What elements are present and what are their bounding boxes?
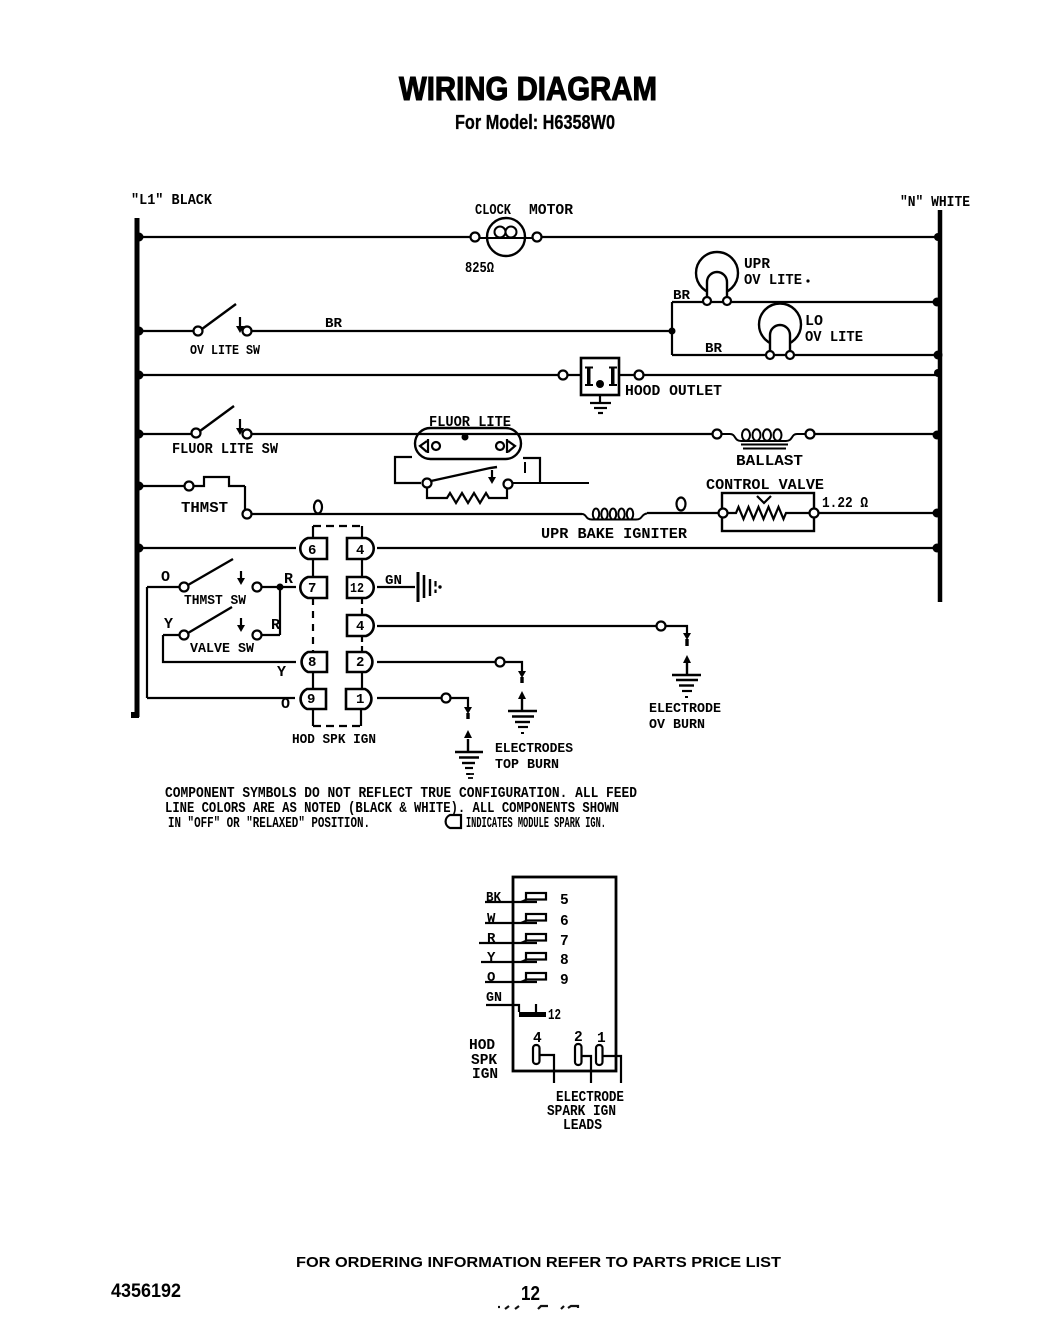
PIN12 GROUND: [377, 572, 442, 602]
HV pin 2: [574, 1030, 591, 1083]
svg-text:825Ω: 825Ω: [465, 260, 494, 277]
svg-text:4356192: 4356192: [111, 1281, 181, 1302]
svg-text:Y: Y: [164, 616, 173, 633]
wire Y feed: [163, 635, 296, 662]
pin 6 spade: [485, 911, 569, 930]
svg-text:2: 2: [356, 655, 364, 671]
ROW4: [139, 406, 938, 503]
lamp UPR OV LITE: [673, 252, 810, 305]
svg-text:BR: BR: [325, 316, 343, 332]
svg-text:"L1" BLACK: "L1" BLACK: [131, 192, 212, 209]
svg-text:LINE COLORS ARE AS NOTED (BLAC: LINE COLORS ARE AS NOTED (BLACK & WHITE)…: [165, 801, 619, 817]
svg-text:8: 8: [308, 655, 316, 671]
spark gap arrow top burn: [521, 699, 523, 710]
wire hood outlet row left: [139, 374, 558, 376]
svg-text:HOD: HOD: [469, 1038, 495, 1054]
node BR vertical: [671, 302, 673, 355]
svg-text:ELECTRODE: ELECTRODE: [649, 701, 721, 717]
wire ballast to N bus: [815, 433, 938, 435]
svg-text:CONTROL VALVE: CONTROL VALVE: [706, 477, 824, 494]
ground ELECTRODE OV BURN: [672, 675, 701, 697]
module pin symbol in note: [446, 815, 461, 828]
svg-text:IGN: IGN: [472, 1067, 498, 1083]
spark gap arrow pin1: [467, 739, 469, 751]
link pin6-pin7: [312, 559, 314, 577]
label module HOD SPK IGN: [469, 1038, 498, 1083]
wire VALVE SW to R node: [261, 634, 280, 636]
svg-text:OV BURN: OV BURN: [649, 717, 705, 733]
connector bead 2: [677, 498, 686, 511]
starter loop wires: [395, 457, 589, 483]
svg-text:THMST SW: THMST SW: [184, 593, 247, 609]
wire pin12 to ground: [377, 586, 415, 588]
svg-text:UPR BAKE IGNITER: UPR BAKE IGNITER: [541, 526, 687, 543]
wire row1 right: [542, 236, 938, 238]
svg-text:BR: BR: [705, 341, 723, 357]
pin 6: [300, 538, 327, 559]
wire tube to ballast: [521, 433, 713, 435]
switch THMST SW: [147, 559, 262, 609]
svg-text:R: R: [284, 571, 293, 588]
dashed module bridge above pins: [313, 526, 362, 538]
svg-text:LEADS: LEADS: [563, 1118, 602, 1134]
pin 4b: [347, 615, 374, 636]
inductor BALLAST: [713, 429, 815, 470]
ground ELECTRODES TOP BURN: [508, 711, 537, 733]
wire valve to N bus: [818, 512, 938, 514]
svg-text:1.22 Ω: 1.22 Ω: [822, 495, 868, 512]
pin 4 top: [347, 538, 374, 559]
MODULE DETAIL: [469, 877, 624, 1134]
pin 12: [347, 577, 374, 598]
resistor fluor starter shunt: [427, 488, 507, 503]
switch fluor starter: [423, 467, 513, 489]
lamp LO OV LITE: [705, 304, 863, 360]
wire L1 bus: [135, 218, 140, 717]
svg-text:O: O: [487, 970, 495, 986]
svg-text:12: 12: [548, 1008, 561, 1024]
svg-text:MOTOR: MOTOR: [529, 202, 573, 219]
FOOTER: [111, 1254, 781, 1309]
svg-text:IN "OFF" OR "RELAXED" POSITION: IN "OFF" OR "RELAXED" POSITION.: [168, 816, 370, 832]
link pin8-pin9: [312, 672, 314, 689]
svg-text:4: 4: [356, 543, 364, 559]
svg-text:OV LITE: OV LITE: [805, 329, 863, 346]
svg-text:GN: GN: [486, 990, 502, 1006]
svg-text:W: W: [487, 911, 496, 927]
svg-text:7: 7: [308, 581, 316, 597]
svg-text:THMST: THMST: [181, 500, 228, 517]
HV pin 1: [596, 1031, 621, 1083]
thermostat THMST: [139, 477, 252, 519]
svg-text:5: 5: [560, 893, 569, 909]
pin 5 spade: [485, 890, 569, 909]
wire pin4 to N bus: [377, 547, 938, 549]
svg-text:R: R: [271, 617, 280, 634]
pin 12 bar: [486, 990, 561, 1024]
svg-text:WIRING DIAGRAM: WIRING DIAGRAM: [399, 70, 657, 107]
pin 9 spade: [485, 970, 569, 989]
BUSES: [131, 192, 970, 718]
ground GN sideways: [418, 572, 442, 602]
clock motor M1: [465, 202, 573, 277]
wire BR to lamp node: [252, 330, 672, 332]
ROW5: [139, 477, 938, 543]
ROW1: [139, 202, 938, 277]
pin 7: [300, 577, 327, 598]
svg-text:UPR: UPR: [744, 256, 770, 273]
connector bead 1: [314, 501, 322, 514]
ground hood outlet: [590, 395, 611, 413]
HV pin 4: [533, 1031, 554, 1083]
svg-text:4: 4: [356, 619, 364, 635]
wire pin4b to electrode ov burn: [377, 625, 656, 627]
svg-text:GN: GN: [385, 573, 402, 589]
svg-text:For Model: H6358W0: For Model: H6358W0: [455, 112, 615, 134]
svg-text:HOOD OUTLET: HOOD OUTLET: [625, 383, 722, 400]
wire L1 to pin6: [139, 547, 296, 549]
wire igniter row: [252, 513, 582, 515]
wire pin2 to electrode top burn: [377, 661, 495, 663]
svg-text:BR: BR: [673, 288, 691, 304]
svg-text:INDICATES MODULE SPARK IGN.: INDICATES MODULE SPARK IGN.: [466, 816, 606, 832]
dashed module bottom: [313, 709, 361, 726]
link pin2-pin1: [361, 672, 363, 689]
svg-text:TOP BURN: TOP BURN: [495, 757, 559, 773]
junction dots L1 bus: [135, 233, 144, 553]
TITLEBLOCK: [399, 70, 657, 134]
svg-text:O: O: [281, 696, 290, 713]
svg-text:Y: Y: [487, 950, 496, 966]
pin 8: [302, 652, 327, 672]
svg-text:COMPONENT SYMBOLS DO NOT REFLE: COMPONENT SYMBOLS DO NOT REFLECT TRUE CO…: [165, 786, 637, 802]
pin 8 spade: [481, 950, 569, 969]
svg-text:OV LITE SW: OV LITE SW: [190, 343, 260, 359]
switch VALVE SW: [163, 607, 280, 657]
footer partial print marks: [498, 1306, 578, 1309]
wire igniter to valve: [647, 512, 718, 514]
pin 1: [346, 689, 371, 709]
label electrode spark ign leads: [547, 1090, 624, 1134]
svg-text:6: 6: [560, 914, 569, 930]
wire UPR lamp row: [672, 301, 936, 303]
ROW2: [139, 252, 936, 359]
valve CONTROL VALVE: [706, 477, 868, 531]
fluorescent lamp FLUOR LITE: [415, 414, 521, 459]
NOTE BLOCK: [165, 774, 637, 832]
wire to fluor tube: [252, 433, 415, 435]
svg-text:LO: LO: [805, 313, 823, 330]
module box HOD SPK IGN: [513, 877, 616, 1071]
svg-text:HOD SPK IGN: HOD SPK IGN: [292, 732, 376, 748]
outlet HOOD OUTLET: [559, 358, 723, 400]
svg-text:OV LITE: OV LITE: [744, 272, 802, 289]
ROW3: [139, 358, 938, 413]
svg-text:VALVE SW: VALVE SW: [190, 641, 255, 657]
svg-text:8: 8: [560, 953, 569, 969]
svg-text:BK: BK: [486, 890, 502, 906]
svg-text:ELECTRODES: ELECTRODES: [495, 741, 573, 757]
wire N bus: [938, 210, 943, 602]
svg-text:CLOCK: CLOCK: [475, 202, 511, 219]
link pin4b-pin2 dashed: [361, 636, 363, 652]
wire LO lamp row: [672, 354, 936, 356]
wire pin1 to electrodes: [377, 697, 441, 699]
svg-text:9: 9: [560, 973, 569, 989]
svg-text:FLUOR LITE SW: FLUOR LITE SW: [172, 441, 278, 458]
wire THMST SW to pin7: [261, 586, 296, 588]
pin 9: [301, 689, 326, 709]
wire R vertical: [279, 587, 281, 635]
pin 2: [347, 652, 372, 672]
wire O feed vertical: [146, 587, 148, 698]
svg-text:O: O: [161, 569, 170, 586]
ELECTRODE ROWS: [377, 622, 721, 775]
switch OV LITE SW: [139, 304, 260, 359]
svg-text:12: 12: [350, 581, 364, 597]
node R: [277, 584, 284, 591]
spark gap arrow ov burn: [686, 663, 688, 674]
CONNECTOR PINS: [300, 577, 373, 709]
svg-text:7: 7: [560, 934, 569, 950]
link pin4-pin12: [361, 559, 363, 577]
ground pin1 electrode: [455, 752, 483, 774]
wire row1 left: [139, 236, 471, 238]
SWITCH AREA: [147, 559, 296, 713]
switch FLUOR LITE SW: [139, 406, 278, 458]
wire pin9 row: [147, 697, 295, 699]
svg-text:"N" WHITE: "N" WHITE: [900, 194, 970, 211]
svg-text:6: 6: [308, 543, 316, 559]
link pin7-pin8 dashed: [312, 598, 314, 652]
svg-text:R: R: [487, 931, 496, 947]
junction dots N bus: [933, 233, 943, 553]
stray mark: [466, 774, 474, 778]
svg-text:9: 9: [307, 692, 315, 708]
link pin12-pin4b dashed: [361, 598, 363, 615]
svg-text:BALLAST: BALLAST: [736, 453, 803, 470]
svg-text:1: 1: [356, 692, 364, 708]
ROW6 connector: [139, 526, 938, 748]
svg-text:12: 12: [521, 1283, 540, 1305]
svg-text:Y: Y: [277, 664, 286, 681]
svg-text:FOR ORDERING INFORMATION REFER: FOR ORDERING INFORMATION REFER TO PARTS …: [296, 1254, 781, 1271]
wire hood outlet row right: [643, 374, 938, 376]
pin 7 spade: [479, 931, 569, 950]
inductor UPR BAKE IGNITER: [541, 509, 687, 544]
